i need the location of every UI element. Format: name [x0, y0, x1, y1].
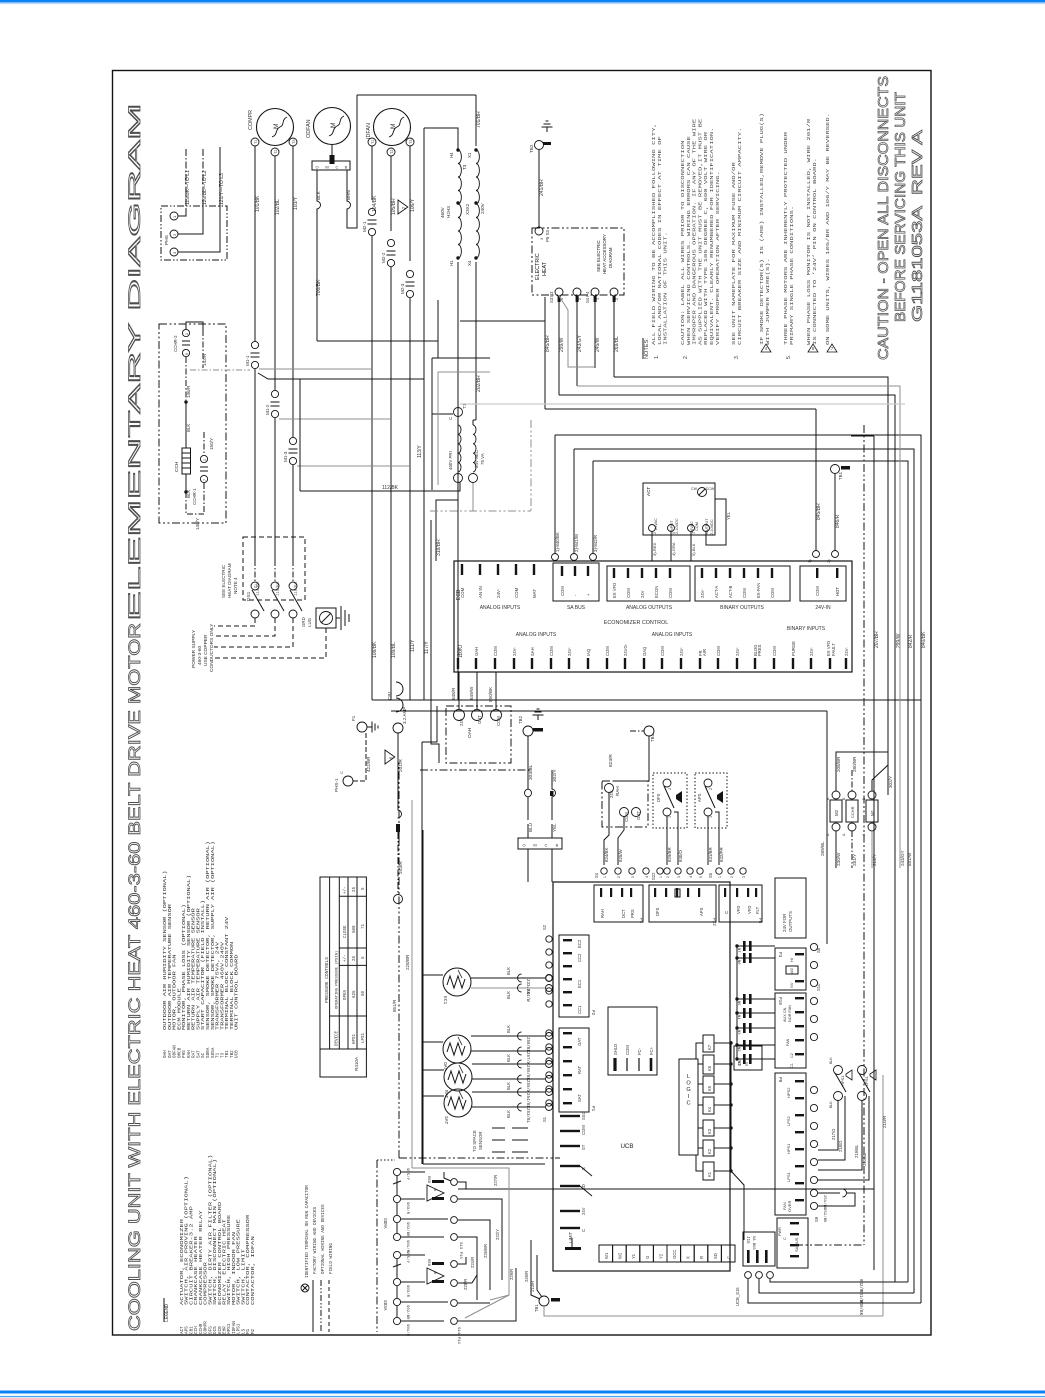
P5 S3 pin 3 — [535, 227, 543, 235]
wire 228/BR grey — [411, 800, 413, 1168]
svg-text:CIRCUIT BREAKER SIZE AND MINIM: CIRCUIT BREAKER SIZE AND MINIMUM CIRCUIT… — [737, 128, 743, 346]
svg-text:W1: W1 — [604, 1252, 609, 1259]
sensor SAT — [444, 1089, 472, 1117]
svg-text:P10: P10 — [777, 997, 782, 1005]
svg-text:229/R: 229/R — [509, 1269, 514, 1280]
top feeder wire — [357, 94, 476, 96]
svg-text:101/BK: 101/BK — [255, 195, 261, 212]
svg-text:BRN: BRN — [346, 190, 351, 200]
svg-text:230/W: 230/W — [836, 852, 841, 866]
svg-text:146/R: 146/R — [186, 385, 191, 398]
electric heat dashed box — [532, 228, 624, 295]
svg-text:PWR: PWR — [778, 1227, 782, 1236]
svg-text:P4: P4 — [638, 918, 643, 924]
svg-text:851/R: 851/R — [392, 999, 397, 1012]
svg-text:IDENTIFIED TERMINAL ON RUN CAP: IDENTIFIED TERMINAL ON RUN CAPACITOR — [305, 1185, 310, 1278]
svg-text:IN: IN — [744, 1062, 749, 1066]
wire 146/R — [185, 357, 187, 400]
svg-text:117/Y: 117/Y — [424, 641, 430, 654]
wire 223 bends — [458, 1257, 466, 1264]
svg-text:LPS1: LPS1 — [786, 1171, 791, 1182]
S3 P3 pin 4 — [555, 288, 563, 296]
svg-text:COM: COM — [716, 646, 721, 656]
svg-text:50: 50 — [362, 990, 366, 996]
SA BUS strip right — [777, 1218, 808, 1268]
svg-text:25: 25 — [353, 955, 357, 961]
svg-text:OVER: OVER — [787, 1201, 792, 1212]
relay contact CCHR-1 — [200, 455, 207, 462]
svg-text:CLOSE: CLOSE — [344, 925, 348, 938]
wire 208/BR — [835, 770, 837, 791]
RAT wire 255/W — [472, 1078, 545, 1080]
drawing border frame — [113, 71, 932, 1336]
wire 302 drop — [551, 849, 553, 882]
unit control board UCB outline — [553, 882, 730, 1271]
bus wire 842/R — [593, 461, 908, 1282]
svg-text:2)-841/W: 2)-841/W — [574, 533, 579, 552]
svg-text:SEE ELECTRIC: SEE ELECTRIC — [221, 564, 226, 598]
svg-text:2: 2 — [730, 876, 734, 878]
svg-text:701/BR: 701/BR — [476, 111, 482, 128]
svg-text:P5: P5 — [757, 918, 762, 924]
wire 845/BR riser — [544, 297, 546, 409]
svg-text:841/W: 841/W — [907, 852, 912, 866]
wire 849/W — [476, 672, 478, 709]
svg-text:T1: T1 — [254, 140, 258, 144]
svg-text:226/BR: 226/BR — [483, 1244, 488, 1258]
relay K4 — [703, 1097, 714, 1114]
ECM module lower OMCB — [518, 838, 562, 849]
svg-text:ON SOME UNITS, WIRES 105/BR AN: ON SOME UNITS, WIRES 105/BR AND 106/Y MA… — [825, 113, 831, 345]
wire 203/R — [398, 810, 402, 818]
svg-text:460V: 460V — [440, 206, 445, 218]
svg-text:24V-: 24V- — [567, 647, 572, 656]
svg-text:208/BR: 208/BR — [836, 756, 841, 772]
svg-text:3)-RED: 3)-RED — [652, 543, 657, 556]
svg-text:COM: COM — [815, 586, 820, 596]
P1 strip — [559, 1028, 589, 1112]
wire 225/R — [458, 1282, 472, 1284]
smoke boundary dash — [376, 1160, 378, 1332]
svg-text:RAT: RAT — [577, 1065, 582, 1074]
relay K6 — [703, 1055, 714, 1074]
svg-text:HOT: HOT — [835, 587, 840, 596]
pressure controls table — [320, 877, 366, 1049]
svg-text:DCT: DCT — [621, 909, 626, 918]
transformer T1 enclosure — [432, 357, 490, 359]
wire 830/O — [674, 812, 678, 865]
svg-text:T1: T1 — [371, 140, 375, 144]
OAT wire 257/W — [471, 1050, 545, 1052]
wire 105/BR — [390, 156, 392, 231]
svg-text:BLK: BLK — [506, 991, 511, 999]
wire 213/R — [537, 1255, 542, 1297]
wire 116/BK — [292, 560, 294, 582]
contactor contact M2-1 — [368, 208, 375, 215]
svg-text:S14 P14: S14 P14 — [456, 1327, 460, 1344]
svg-text:LOCAL AND/OR NATIONAL CODES IN: LOCAL AND/OR NATIONAL CODES IN EFFECT AT… — [657, 136, 663, 345]
svg-text:DS1: DS1 — [246, 591, 252, 601]
svg-text:3: 3 — [677, 876, 681, 878]
svg-text:245/W: 245/W — [595, 337, 601, 352]
svg-text:VFD: VFD — [747, 906, 752, 914]
svg-text:M1-1: M1-1 — [245, 355, 250, 366]
svg-text:VFD: VFD — [736, 906, 741, 914]
svg-text:845/BR: 845/BR — [816, 503, 822, 520]
wire 229/R — [458, 1268, 516, 1321]
wire 701/BR — [475, 95, 477, 146]
svg-text:905/Y: 905/Y — [405, 1251, 410, 1264]
svg-text:+/-: +/- — [343, 886, 348, 894]
wire 280/BR — [851, 770, 853, 791]
svg-text:24V-: 24V- — [735, 647, 740, 656]
svg-text:207/BR: 207/BR — [874, 631, 880, 648]
svg-text:302/Y: 302/Y — [552, 769, 558, 782]
svg-text:TO SPACE: TO SPACE — [472, 1130, 477, 1152]
terminal TB1 mid — [644, 726, 654, 736]
relay K3 — [703, 1120, 714, 1136]
svg-text:P2: P2 — [590, 1010, 595, 1016]
svg-text:IF SMOKE DETECTOR(S) IS (ARE): IF SMOKE DETECTOR(S) IS (ARE) INSTALLED,… — [759, 113, 765, 345]
svg-text:P5 S3: P5 S3 — [545, 229, 550, 242]
bus wire 840/BK — [555, 435, 921, 1303]
svg-text:ELEMENTARY DIAGRAM: ELEMENTARY DIAGRAM — [126, 103, 144, 621]
svg-text:75 VA: 75 VA — [480, 453, 485, 465]
svg-text:COM: COM — [626, 588, 631, 598]
terminal TB2 lower with ground — [523, 726, 533, 736]
svg-text:213/R: 213/R — [530, 1281, 535, 1292]
OAT wire 258/BK — [471, 1035, 545, 1037]
wire 848/R — [458, 672, 460, 709]
svg-text:HEAT ACCESSORY: HEAT ACCESSORY — [602, 234, 607, 274]
svg-text:COM: COM — [660, 646, 665, 656]
T1 primary coil — [458, 425, 461, 472]
svg-text:OPERATING PRESSURE (PSIG): OPERATING PRESSURE (PSIG) — [334, 951, 339, 1009]
svg-text:M2-1: M2-1 — [362, 221, 367, 232]
svg-text:318/BR: 318/BR — [436, 539, 442, 556]
svg-text:K7: K7 — [707, 1044, 712, 1050]
svg-text:24V SEC: 24V SEC — [474, 450, 479, 468]
svg-text:CONDUCTORS ONLY: CONDUCTORS ONLY — [209, 623, 215, 672]
svg-text:RAH: RAH — [600, 909, 605, 918]
svg-text:NV: NV — [789, 982, 794, 988]
UCB internal left terminals — [560, 1115, 580, 1117]
svg-text:HPS1: HPS1 — [353, 1033, 357, 1044]
sensor common rail — [422, 830, 424, 1164]
bus wire 269/BL — [614, 377, 888, 795]
svg-text:842/R: 842/R — [908, 634, 914, 648]
crankcase heater CCH dashed enclosure — [159, 324, 226, 523]
wire 243/GY — [576, 296, 579, 302]
PHS pin 2 — [170, 230, 178, 238]
wire 251/BK — [818, 1192, 840, 1194]
svg-text:106/Y: 106/Y — [410, 198, 416, 212]
wire 832/PR — [715, 812, 719, 865]
svg-text:CAUTION - OPEN ALL DISCONNECTS: CAUTION - OPEN ALL DISCONNECTS — [875, 76, 892, 360]
grey dashdot center — [430, 510, 531, 512]
wire 112/BK left leg — [299, 379, 301, 491]
svg-text:24VAC: 24VAC — [654, 518, 658, 530]
svg-text:119/BK—TO L1: 119/BK—TO L1 — [185, 170, 191, 205]
svg-text:CONTACTOR, IDFAN: CONTACTOR, IDFAN — [251, 1236, 256, 1305]
P10 strip — [775, 993, 806, 1068]
wire 245/W — [594, 296, 597, 302]
svg-text:OUT: OUT — [636, 811, 641, 820]
SDRA amplifier — [427, 1185, 444, 1201]
wire 121/Y to L3 — [178, 206, 220, 252]
svg-text:2-10VDC: 2-10VDC — [675, 518, 679, 534]
ground lug GRD LUG — [316, 608, 336, 628]
transformer T3 primary coil — [458, 150, 461, 258]
wire 114/BK — [254, 560, 256, 582]
P3 strip — [775, 948, 806, 990]
PHS pin 3 — [170, 248, 178, 256]
disconnect DS1 pole1 — [251, 582, 259, 590]
svg-text:ODFAN: ODFAN — [306, 119, 312, 138]
svg-text:HEAT DIAGRAM: HEAT DIAGRAM — [227, 563, 232, 598]
wire 217/O — [818, 1100, 838, 1150]
contactor contact M1-3 — [289, 437, 296, 444]
svg-text:RAT: RAT — [443, 1090, 449, 1099]
svg-text:303/BL: 303/BL — [528, 764, 534, 780]
svg-text:ANALOG INPUTS: ANALOG INPUTS — [652, 632, 693, 638]
wire 842/R drop — [590, 554, 597, 561]
wire 218/O — [818, 1096, 845, 1160]
svg-text:AS SUPPLIED WITH THE UNIT MUST: AS SUPPLIED WITH THE UNIT MUST BE REMOVE… — [697, 119, 703, 345]
svg-text:BLK: BLK — [186, 424, 191, 432]
svg-text:COM: COM — [668, 588, 673, 598]
svg-text:PHS: PHS — [164, 235, 170, 245]
grey smoke path — [412, 1168, 509, 1318]
svg-text:COM: COM — [493, 646, 498, 656]
svg-text:OAT: OAT — [577, 1037, 582, 1046]
svg-text:P1: P1 — [590, 1106, 595, 1112]
24V-IN sub-box — [800, 566, 846, 601]
riser 431 — [431, 520, 439, 763]
svg-text:W2: W2 — [618, 1252, 623, 1259]
svg-text:625: 625 — [353, 990, 357, 998]
svg-text:SA BUS: SA BUS — [751, 1236, 755, 1250]
svg-text:YEL: YEL — [552, 823, 557, 832]
svg-text:FC-: FC- — [637, 1047, 642, 1055]
svg-text:EC1: EC1 — [442, 996, 448, 1005]
sensor OAH dashed box — [446, 706, 511, 763]
T3 tap H4 — [456, 148, 459, 151]
wire BLK from OMCB — [316, 170, 318, 201]
motor COMPR — [257, 109, 294, 146]
svg-text:831/BR: 831/BR — [708, 847, 713, 862]
svg-text:UCB: UCB — [235, 1050, 240, 1058]
svg-text:O: O — [522, 843, 525, 848]
relay K7 — [703, 1035, 714, 1052]
svg-text:243/GY: 243/GY — [577, 334, 583, 352]
svg-text:S3:P3: S3:P3 — [549, 291, 554, 303]
K common rail — [730, 1041, 732, 1171]
svg-text:C: C — [545, 843, 548, 848]
svg-text:LPS1: LPS1 — [864, 1075, 869, 1086]
svg-text:24V-: 24V- — [844, 647, 849, 656]
field wiring dashes pole3 — [214, 618, 293, 647]
wire 318/BR — [436, 483, 458, 561]
svg-text:S5: S5 — [708, 872, 713, 878]
svg-text:OAQ: OAQ — [642, 646, 647, 656]
wire 119/BK to L1 — [178, 208, 186, 216]
monitor PHS dashed box — [161, 206, 227, 260]
svg-text:P3: P3 — [777, 952, 782, 958]
svg-text:CC2: CC2 — [577, 953, 582, 962]
svg-text:O: O — [315, 164, 318, 169]
svg-text:COM: COM — [625, 1045, 630, 1055]
wire 103/Y — [292, 146, 294, 437]
wire CCH bottom — [185, 474, 187, 492]
svg-text:ACT-A: ACT-A — [714, 585, 719, 598]
grey bottom rail — [544, 1306, 883, 1316]
ECB top-left terminals — [461, 564, 463, 575]
svg-text:K6: K6 — [707, 1065, 712, 1071]
svg-text:241/BR: 241/BR — [539, 179, 545, 196]
svg-text:9: 9 — [185, 353, 189, 355]
capacitor N4 — [737, 1012, 775, 1014]
S1 S2 pin circles — [546, 936, 552, 942]
svg-text:WHEN SERVICING CONTROLS. WIRIN: WHEN SERVICING CONTROLS. WIRING ERRORS C… — [686, 136, 692, 345]
svg-text:ECON: ECON — [654, 586, 659, 598]
svg-text:140/Y: 140/Y — [195, 518, 200, 530]
svg-text:X4: X4 — [467, 260, 472, 266]
svg-text:201/R: 201/R — [398, 759, 404, 772]
svg-text:COM: COM — [560, 586, 565, 596]
svg-text:COM: COM — [581, 1125, 586, 1135]
svg-text:829/BR: 829/BR — [667, 847, 672, 862]
low pressure switch LPS1 — [858, 1066, 867, 1075]
svg-text:256/BK: 256/BK — [525, 1065, 530, 1081]
svg-text:SAT: SAT — [443, 1116, 449, 1125]
wire 150/Y — [203, 432, 205, 455]
svg-text:HPS2: HPS2 — [786, 1087, 791, 1098]
SAT wire 254/BL — [472, 1091, 545, 1093]
svg-text:108/BK: 108/BK — [372, 641, 378, 658]
wire 219/BL — [818, 1100, 862, 1170]
svg-text:UCB_S15: UCB_S15 — [735, 1287, 740, 1306]
T1 grey inner — [437, 372, 439, 485]
wire 140/Y — [203, 483, 205, 514]
svg-text:460V PRI: 460V PRI — [448, 451, 453, 470]
svg-text:840/BK: 840/BK — [858, 1300, 863, 1316]
svg-text:OAT: OAT — [442, 1062, 448, 1071]
svg-text:C: C — [448, 417, 453, 420]
svg-text:2: 2 — [668, 788, 672, 790]
svg-text:TB2: TB2 — [518, 715, 523, 724]
svg-text:4)-GRA: 4)-GRA — [671, 542, 676, 556]
svg-text:1: 1 — [603, 876, 607, 878]
svg-text:MAT: MAT — [532, 589, 537, 598]
svg-text:5: 5 — [699, 876, 703, 878]
wire 241/BR — [538, 150, 540, 227]
ANALOG OUTPUTS sub-box — [607, 566, 690, 601]
wire M1-2 output — [274, 418, 276, 560]
svg-text:219/BL: 219/BL — [854, 1144, 859, 1158]
capacitor N6 — [737, 957, 775, 959]
connector pins S4 S22 S5 — [601, 868, 607, 874]
svg-text:GRD: GRD — [301, 617, 306, 627]
svg-text:224/R: 224/R — [470, 1257, 475, 1268]
svg-text:ST: ST — [581, 1144, 586, 1150]
ACT wire BLK — [690, 532, 692, 561]
UCB terminal LIMIT — [565, 1247, 581, 1250]
svg-text:S9: S9 — [814, 1216, 819, 1222]
warning triangle note 6 — [385, 750, 395, 764]
sensor OAT — [443, 1035, 471, 1063]
svg-text:SEE ELECTRIC: SEE ELECTRIC — [596, 240, 601, 272]
svg-text:OAH: OAH — [467, 727, 473, 738]
svg-text:DEVICE: DEVICE — [335, 1030, 339, 1046]
wire 202/BR from X4 — [475, 262, 477, 420]
svg-text:24V-: 24V- — [512, 647, 517, 656]
svg-text:823/R: 823/R — [608, 754, 614, 767]
wire 224/R — [458, 1237, 477, 1300]
svg-text:X3X2: X3X2 — [465, 203, 470, 215]
ECB bottom terminals — [457, 658, 459, 669]
R410A box — [320, 1049, 366, 1077]
optional wiring sample — [320, 1280, 322, 1332]
svg-text:1: 1 — [668, 816, 672, 818]
svg-text:121/Y—TO L3: 121/Y—TO L3 — [219, 173, 225, 205]
wire 281/Y — [851, 831, 853, 868]
svg-text:IDFAN: IDFAN — [366, 123, 372, 139]
svg-text:COM: COM — [742, 588, 747, 598]
see electric heat note box — [243, 537, 305, 600]
svg-text:POWER SUPPLY: POWER SUPPLY — [191, 629, 197, 668]
svg-text:H2H3: H2H3 — [446, 206, 451, 218]
grd lug ground symbol — [336, 617, 340, 619]
svg-text:24V-: 24V- — [679, 647, 684, 656]
bus wire 207/BR — [873, 436, 875, 1270]
svg-text:NOR FAN: NOR FAN — [788, 1005, 792, 1022]
svg-text:HEAT: HEAT — [542, 261, 548, 276]
svg-text:Y1: Y1 — [631, 1253, 636, 1259]
wire 302/Y — [551, 770, 553, 789]
svg-text:901/R: 901/R — [405, 1324, 410, 1337]
svg-text:COMPR: COMPR — [248, 110, 254, 130]
svg-text:24V: 24V — [609, 790, 614, 798]
optional boundary below OAH — [420, 769, 532, 771]
P22 strip — [649, 885, 716, 922]
svg-text:EC2: EC2 — [577, 939, 582, 948]
svg-text:AN IN: AN IN — [478, 586, 483, 598]
svg-text:SD: SD — [713, 1253, 718, 1259]
svg-text:109/BL: 109/BL — [391, 642, 397, 658]
svg-text:SA BUS: SA BUS — [794, 1237, 799, 1252]
svg-text:FLT: FLT — [755, 906, 760, 914]
P2 strip — [559, 935, 589, 1017]
svg-text:UNIT CONTROL BOARD: UNIT CONTROL BOARD — [235, 954, 240, 1030]
svg-text:BLK: BLK — [506, 1054, 511, 1062]
grd field dash — [214, 628, 326, 658]
wire 303 drop — [527, 849, 529, 882]
wire 227/R — [444, 1172, 451, 1181]
wire 845/BR pin — [813, 551, 820, 558]
svg-text:3.: 3. — [734, 355, 740, 359]
svg-text:S1: S1 — [542, 1116, 547, 1122]
svg-text:HPS1: HPS1 — [786, 1143, 791, 1154]
svg-text:SENSOR: SENSOR — [478, 1131, 483, 1150]
svg-text:24V-: 24V- — [700, 589, 705, 598]
svg-text:RAH: RAH — [615, 786, 620, 796]
dirty filter switch DFS box — [653, 773, 687, 828]
svg-text:71: 71 — [362, 923, 366, 929]
wire 201/R — [397, 733, 399, 810]
phase monitor PHS-1 pin — [343, 776, 353, 786]
N rail — [736, 946, 738, 1059]
